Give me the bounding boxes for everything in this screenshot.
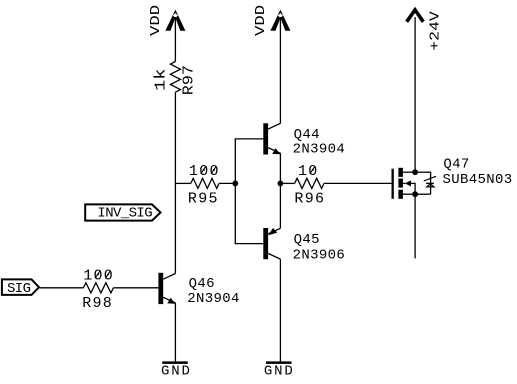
label Q45 value 2N3906 <box>293 247 346 263</box>
resistor R97 (1k) vertical zigzag <box>170 62 180 93</box>
label Q44 refdes <box>294 127 320 143</box>
svg-text:2N3904: 2N3904 <box>293 142 346 158</box>
svg-text:Q45: Q45 <box>294 232 320 248</box>
svg-text:SUB45N03: SUB45N03 <box>443 172 513 188</box>
junction node source <box>412 191 418 197</box>
Q47 channel segments <box>398 168 403 199</box>
Q47 body arrow <box>403 180 415 194</box>
svg-text:SIG: SIG <box>7 281 31 297</box>
svg-text:R96: R96 <box>294 190 325 207</box>
wire R98 to Q46 base <box>113 287 158 289</box>
wire VDD2 to Q44 collector <box>279 17 281 123</box>
label Q47 refdes <box>443 156 469 172</box>
wire Q44 emitter down to node <box>279 153 281 228</box>
junction node drain <box>412 169 418 175</box>
net label flag INV_SIG <box>85 204 160 221</box>
wire +24V rail to drain <box>414 17 416 172</box>
resistor R98 (100) <box>83 283 113 293</box>
svg-text:R98: R98 <box>82 295 113 312</box>
svg-text:100: 100 <box>83 267 114 284</box>
label R97 value 1k <box>153 69 170 92</box>
wire Q47 source down <box>414 194 416 258</box>
svg-text:+24V: +24V <box>427 11 443 51</box>
wire Q45 collector to GND2 <box>279 259 281 361</box>
transistor Q45 PNP <box>263 228 280 259</box>
label Q45 refdes <box>294 232 320 248</box>
label R95 value 100 <box>189 163 220 180</box>
ground GND #2 <box>264 361 295 379</box>
resistor R96 (10) <box>295 178 324 188</box>
label R96 refdes <box>294 190 325 207</box>
label Q47 value SUB45N03 <box>443 172 513 188</box>
label R98 refdes <box>82 295 113 312</box>
transistor Q44 NPN <box>263 123 280 154</box>
svg-text:R97: R97 <box>181 65 198 95</box>
label Q44 value 2N3904 <box>293 142 346 158</box>
wire Q47 drain <box>403 171 415 173</box>
label R98 value 100 <box>83 267 114 284</box>
label Q46 refdes <box>189 276 215 292</box>
transistor Q47 MOSFET gate bar <box>392 169 394 199</box>
power symbol +24V arrow <box>407 10 424 22</box>
label VDD #2 <box>253 5 269 36</box>
svg-text:Q46: Q46 <box>189 276 215 292</box>
svg-text:INV_SIG: INV_SIG <box>97 206 152 222</box>
wire R96 right to Q47 gate <box>324 182 392 184</box>
net label flag SIG <box>2 279 39 297</box>
label R95 refdes <box>188 190 219 207</box>
junction node at base link <box>232 181 238 187</box>
svg-text:VDD: VDD <box>148 5 164 36</box>
label Q46 value 2N3904 <box>187 291 240 307</box>
wire R95 left to vertical <box>175 182 190 184</box>
label R96 value 10 <box>298 163 319 180</box>
power symbol VDD #2 arrow <box>270 10 290 31</box>
resistor R95 (100) <box>191 178 219 188</box>
svg-text:R95: R95 <box>188 190 219 207</box>
label R97 refdes <box>181 65 198 95</box>
svg-text:Q44: Q44 <box>294 127 320 143</box>
wire R96 left <box>280 182 294 184</box>
svg-text:2N3906: 2N3906 <box>293 247 346 263</box>
svg-text:GND: GND <box>264 364 295 380</box>
wire SIG to R98 <box>40 287 84 289</box>
label VDD #1 <box>148 5 164 36</box>
transistor Q46 NPN <box>158 273 175 304</box>
svg-text:10: 10 <box>298 163 319 180</box>
power symbol VDD #1 arrow <box>165 10 185 31</box>
wire VDD1 to R97 <box>174 17 176 62</box>
ground GND #1 <box>161 361 192 379</box>
svg-text:2N3904: 2N3904 <box>187 291 240 307</box>
svg-text:100: 100 <box>189 163 220 180</box>
wire Q46 emitter to GND1 <box>174 303 176 362</box>
wire R95 right to base link <box>219 182 235 184</box>
wire Q47 source <box>403 193 415 195</box>
svg-text:VDD: VDD <box>253 5 269 36</box>
wire body diode branch <box>415 172 431 194</box>
junction node output at R96 <box>278 181 284 187</box>
svg-text:Q47: Q47 <box>443 156 469 172</box>
svg-text:GND: GND <box>161 364 192 380</box>
wire base link Q44/Q45 <box>235 139 263 244</box>
svg-text:1k: 1k <box>153 69 170 92</box>
body diode of Q47 <box>424 172 436 194</box>
wire R97 bottom to Q46 collector (node INV_SIG) <box>174 92 176 273</box>
label +24V <box>427 11 443 51</box>
